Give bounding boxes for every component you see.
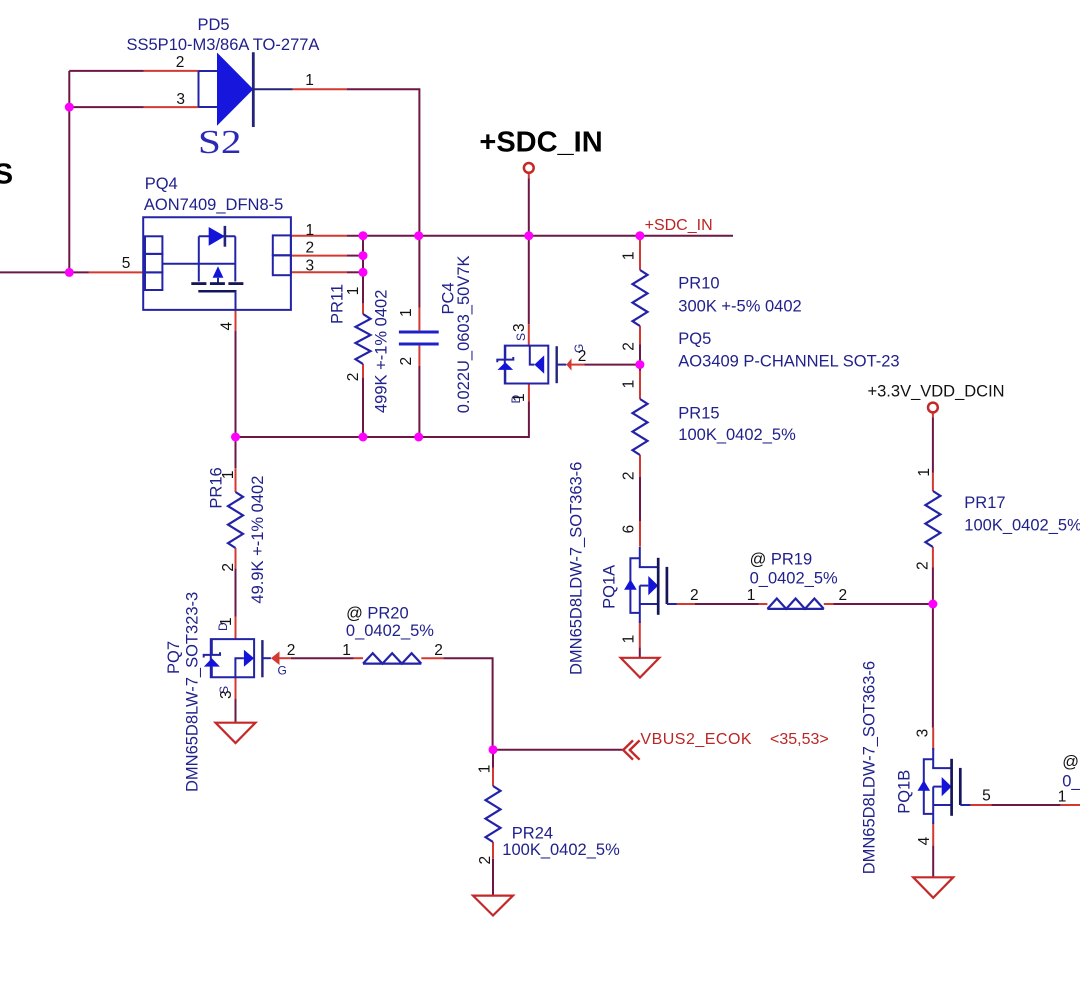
svg-text:@: @	[750, 550, 767, 568]
svg-text:100K_0402_5%: 100K_0402_5%	[964, 517, 1080, 535]
svg-text:4: 4	[219, 322, 236, 331]
svg-text:100K_0402_5%: 100K_0402_5%	[678, 426, 796, 444]
svg-text:5: 5	[122, 255, 131, 272]
svg-text:1: 1	[398, 308, 415, 317]
svg-text:@: @	[346, 605, 363, 623]
svg-text:3: 3	[218, 690, 235, 699]
svg-text:3: 3	[511, 323, 528, 332]
svg-text:PQ4: PQ4	[145, 175, 178, 193]
svg-text:3: 3	[306, 257, 315, 274]
svg-text:1: 1	[621, 380, 638, 389]
svg-text:1: 1	[220, 470, 237, 479]
svg-text:300K +-5% 0402: 300K +-5% 0402	[678, 298, 801, 316]
svg-text:AO3409 P-CHANNEL SOT-23: AO3409 P-CHANNEL SOT-23	[678, 353, 899, 371]
svg-text:499K +-1% 0402: 499K +-1% 0402	[373, 290, 391, 413]
svg-text:PD5: PD5	[198, 16, 230, 34]
svg-text:49.9K +-1% 0402: 49.9K +-1% 0402	[249, 476, 267, 604]
svg-text:PQ7: PQ7	[165, 641, 183, 674]
svg-text:PR20: PR20	[367, 605, 408, 623]
svg-text:2: 2	[345, 373, 362, 382]
svg-text:2: 2	[434, 642, 443, 659]
svg-text:1: 1	[747, 587, 756, 604]
svg-text:0_0402_5%: 0_0402_5%	[750, 570, 838, 588]
svg-text:PR17: PR17	[964, 494, 1005, 512]
svg-text:1: 1	[218, 617, 235, 626]
svg-text:SS5P10-M3/86A TO-277A: SS5P10-M3/86A TO-277A	[127, 36, 320, 54]
svg-text:1: 1	[916, 468, 933, 477]
svg-text:0_0402_5%: 0_0402_5%	[346, 622, 434, 640]
svg-text:S2: S2	[198, 124, 242, 161]
svg-text:1: 1	[305, 72, 314, 89]
svg-text:DMN65D8LW-7_SOT323-3: DMN65D8LW-7_SOT323-3	[184, 592, 202, 792]
svg-text:PR10: PR10	[678, 274, 719, 292]
svg-text:+SDC_IN: +SDC_IN	[645, 217, 713, 234]
svg-text:100K_0402_5%: 100K_0402_5%	[502, 841, 620, 859]
svg-text:PR19: PR19	[771, 550, 812, 568]
svg-text:S: S	[0, 159, 13, 191]
svg-text:3: 3	[176, 91, 185, 108]
svg-text:AON7409_DFN8-5: AON7409_DFN8-5	[144, 196, 283, 214]
svg-text:2: 2	[398, 357, 415, 366]
svg-text:4: 4	[916, 836, 933, 845]
svg-text:1: 1	[511, 393, 528, 402]
svg-text:PR24: PR24	[512, 825, 553, 843]
svg-text:+3.3V_VDD_DCIN: +3.3V_VDD_DCIN	[868, 383, 1005, 401]
svg-text:S: S	[514, 333, 528, 341]
svg-text:3: 3	[915, 729, 932, 738]
svg-text:1: 1	[342, 642, 351, 659]
svg-text:PR11: PR11	[329, 284, 347, 324]
svg-text:DMN65D8LDW-7_SOT363-6: DMN65D8LDW-7_SOT363-6	[861, 661, 879, 874]
svg-text:VBUS2_ECOK: VBUS2_ECOK	[640, 731, 752, 748]
svg-text:1: 1	[621, 251, 638, 260]
svg-text:2: 2	[839, 587, 848, 604]
svg-text:PR15: PR15	[678, 404, 719, 422]
svg-text:1: 1	[621, 635, 638, 644]
svg-text:2: 2	[915, 561, 932, 570]
svg-text:PQ5: PQ5	[678, 330, 711, 348]
svg-text:1: 1	[306, 222, 315, 239]
svg-text:1: 1	[1058, 789, 1067, 806]
svg-text:2: 2	[690, 587, 699, 604]
svg-text:PQ1A: PQ1A	[601, 565, 619, 609]
svg-text:+SDC_IN: +SDC_IN	[479, 127, 602, 159]
svg-text:2: 2	[176, 54, 185, 71]
svg-text:6: 6	[621, 525, 638, 534]
svg-text:2: 2	[306, 240, 315, 257]
svg-text:<35,53>: <35,53>	[770, 731, 829, 748]
svg-text:0.022U_0603_50V7K: 0.022U_0603_50V7K	[455, 255, 473, 413]
svg-text:PQ1B: PQ1B	[896, 770, 914, 814]
svg-text:5: 5	[982, 788, 991, 805]
svg-text:2: 2	[287, 642, 296, 659]
svg-text:DMN65D8LDW-7_SOT363-6: DMN65D8LDW-7_SOT363-6	[568, 462, 586, 675]
svg-text:2: 2	[477, 856, 494, 865]
svg-text:2: 2	[621, 342, 638, 351]
svg-text:@: @	[1062, 753, 1079, 771]
svg-text:2: 2	[578, 348, 587, 365]
svg-text:G: G	[278, 663, 287, 677]
svg-text:2: 2	[621, 471, 638, 480]
svg-text:1: 1	[476, 765, 493, 774]
svg-text:1: 1	[345, 287, 362, 296]
svg-text:2: 2	[220, 563, 237, 572]
